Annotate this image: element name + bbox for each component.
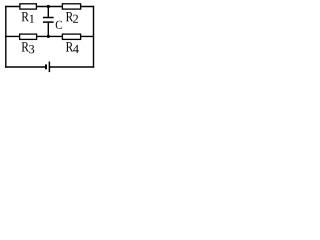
resistor R4 xyxy=(62,34,80,53)
node junction top xyxy=(47,5,50,8)
resistor R2 xyxy=(62,4,80,23)
wire top rail xyxy=(5,6,94,8)
resistor R1 body xyxy=(20,4,37,9)
resistor R2 body xyxy=(62,4,80,9)
resistor R1 xyxy=(20,4,37,23)
node junction middle xyxy=(47,35,50,38)
wire right rail xyxy=(93,6,95,68)
capacitor C top plate xyxy=(43,17,54,19)
capacitor C bottom plate xyxy=(43,21,54,23)
wire bottom rail left xyxy=(5,66,46,68)
battery B1 xyxy=(46,62,49,73)
wire bottom rail right xyxy=(50,66,95,68)
label R1 xyxy=(22,12,29,21)
wire left rail xyxy=(5,6,7,68)
label R2 xyxy=(66,12,73,21)
label C xyxy=(56,21,62,29)
capacitor C xyxy=(43,7,62,37)
resistor R3 xyxy=(20,34,37,53)
battery negative plate (short) xyxy=(45,64,47,69)
resistor R4 body xyxy=(62,34,80,39)
resistor R3 body xyxy=(20,34,37,39)
wire capacitor bottom lead xyxy=(47,23,49,37)
wire middle rail xyxy=(5,35,94,37)
battery positive plate (long) xyxy=(48,62,50,73)
wire capacitor top lead xyxy=(47,7,49,17)
label R4 xyxy=(66,42,73,51)
label R3 xyxy=(22,42,29,51)
